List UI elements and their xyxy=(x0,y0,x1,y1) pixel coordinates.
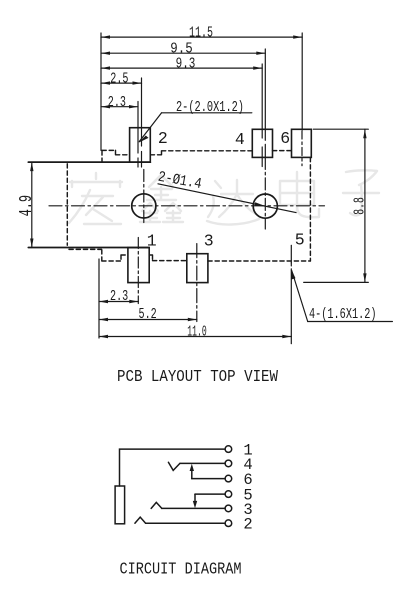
hidden outline bottom-left xyxy=(69,249,128,261)
svg-text:2: 2 xyxy=(158,129,168,148)
wire pin 4 xyxy=(180,462,225,464)
terminal 4 xyxy=(225,460,232,467)
svg-text:CIRCUIT DIAGRAM: CIRCUIT DIAGRAM xyxy=(120,560,242,579)
leader 2-Ø1.4 xyxy=(158,184,296,213)
pad 5 centerline xyxy=(290,245,292,263)
pad 3 xyxy=(187,254,208,283)
pad 6 xyxy=(292,129,312,157)
ext line bottom dims left xyxy=(98,259,100,338)
watermark char 宏 xyxy=(69,173,122,224)
dim line 2.3 xyxy=(101,106,138,108)
pad 4 xyxy=(252,129,272,157)
svg-text:2-(2.0X1.2): 2-(2.0X1.2) xyxy=(176,99,244,116)
dim line 4.9 xyxy=(31,162,33,247)
ext line 8.8 top xyxy=(313,128,368,130)
body bottom edge xyxy=(28,247,149,249)
hidden right edge xyxy=(309,158,311,261)
wire pin 5 xyxy=(195,493,225,495)
ext line left common xyxy=(100,33,102,150)
dimension lines xyxy=(32,37,365,336)
arrow up on pin4 link xyxy=(190,464,194,471)
arrows 2.3 bottom xyxy=(99,300,108,303)
pad 3 centerline xyxy=(196,244,198,322)
terminal 3 xyxy=(225,505,232,512)
mounting holes 2-Ø1.4 xyxy=(132,194,278,218)
terminal 2 xyxy=(225,520,232,527)
arrows 11.5 xyxy=(101,35,110,38)
dim line 9.3 xyxy=(101,67,262,69)
wire pin 2 xyxy=(146,522,226,524)
pads xyxy=(128,128,311,283)
pad 1 xyxy=(128,248,149,283)
ext line pad6 center / 11.5 xyxy=(301,33,303,130)
hidden outline right of pad 1 xyxy=(149,255,187,261)
ext line pad5 center bottom xyxy=(290,271,292,344)
dimension texts xyxy=(17,25,376,341)
hole right xyxy=(253,194,277,218)
ext line 8.8 bottom xyxy=(304,281,369,283)
svg-text:5: 5 xyxy=(295,231,305,250)
svg-text:4.9: 4.9 xyxy=(17,195,37,217)
ext line 9.5 / right hole center xyxy=(264,49,266,157)
hole left xyxy=(132,194,156,218)
pad 2 xyxy=(130,128,151,163)
wire pin 3 xyxy=(162,507,225,509)
arrows 2.3 xyxy=(101,105,110,108)
svg-text:PCB LAYOUT TOP VIEW: PCB LAYOUT TOP VIEW xyxy=(117,368,279,387)
arrows 9.3 xyxy=(101,66,110,69)
svg-text:5.2: 5.2 xyxy=(139,306,157,323)
svg-text:2.3: 2.3 xyxy=(108,94,126,111)
svg-text:2.5: 2.5 xyxy=(110,70,128,87)
svg-text:2.3: 2.3 xyxy=(110,288,128,305)
watermark char 电 xyxy=(280,172,319,217)
arrows 8.8 xyxy=(363,129,366,138)
hidden outline bottom right run xyxy=(208,260,311,262)
svg-text:4: 4 xyxy=(235,130,245,149)
terminal 1 xyxy=(225,446,232,453)
hidden outline right of pad 2 xyxy=(150,151,252,155)
dim line 5.2 xyxy=(99,319,197,321)
terminal 5 xyxy=(225,491,232,498)
dim line 2.3 bottom xyxy=(99,301,138,303)
wire pin 6 xyxy=(192,478,225,480)
watermark char 达 xyxy=(207,180,259,225)
switch contact on pin 4 xyxy=(168,462,180,470)
svg-text:1: 1 xyxy=(147,231,157,250)
arrows 9.5 xyxy=(101,52,110,55)
body top edge xyxy=(28,161,150,163)
horizontal centerline xyxy=(49,205,325,207)
svg-text:4-(1.6X1.2): 4-(1.6X1.2) xyxy=(309,306,377,323)
ext line 2.5 xyxy=(141,78,143,167)
dim line 2.5 xyxy=(101,82,142,84)
svg-text:11.5: 11.5 xyxy=(189,25,213,42)
svg-text:6: 6 xyxy=(280,129,290,148)
arrows 11.0 xyxy=(99,335,108,338)
svg-text:8.8: 8.8 xyxy=(353,197,369,215)
dim line 11.5 xyxy=(101,36,302,38)
pad 6 centerline xyxy=(301,131,303,166)
terminal 6 xyxy=(225,475,232,482)
pin number labels xyxy=(243,442,252,534)
arrows 4.9 xyxy=(30,162,33,171)
dim line 11.0 xyxy=(99,336,291,338)
ext line 2.3 xyxy=(137,102,139,168)
arrows 2.5 xyxy=(101,81,110,84)
link pin6 to pin4 (arrow up) xyxy=(191,468,193,479)
watermark 宏鑫达电子 (light gray, stroke approximation) xyxy=(69,170,379,224)
hidden (dashed) shell outline xyxy=(67,150,310,261)
pin terminal circles xyxy=(225,446,232,527)
pad 1 centerline xyxy=(137,238,139,304)
link pin5 to pin3 (arrow down) xyxy=(194,494,196,502)
dim line 8.8 xyxy=(364,129,366,282)
watermark char 鑫 xyxy=(140,175,183,222)
arrows 5.2 xyxy=(99,318,108,321)
ext line 9.3 xyxy=(261,64,263,167)
watermark char 子 xyxy=(343,170,379,215)
dimension extension lines xyxy=(99,33,368,344)
hidden outline between pad 4 and pad 6 xyxy=(273,150,292,152)
jack sleeve body xyxy=(115,486,125,524)
contact tent pin 3 xyxy=(151,502,162,508)
left hole centerline xyxy=(143,170,145,225)
right hole centerline lower part xyxy=(264,157,266,229)
wire pin 1 xyxy=(120,449,226,486)
contact tent pin 2 xyxy=(135,517,146,523)
hidden outline top-left corner xyxy=(102,150,130,161)
svg-text:3: 3 xyxy=(204,231,214,250)
hidden left edge xyxy=(66,164,68,246)
svg-text:9.3: 9.3 xyxy=(176,55,196,72)
dim line 9.5 xyxy=(101,52,265,54)
svg-text:11.0: 11.0 xyxy=(187,323,206,340)
arrow down on pin5 link xyxy=(193,501,197,508)
leader 2-(2.0X1.2) xyxy=(139,113,252,142)
svg-text:2: 2 xyxy=(243,516,252,534)
center lines (dash-dot) xyxy=(49,131,325,322)
dimension arrowheads xyxy=(30,35,367,338)
leader 4-(1.6X1.2) xyxy=(292,271,393,322)
